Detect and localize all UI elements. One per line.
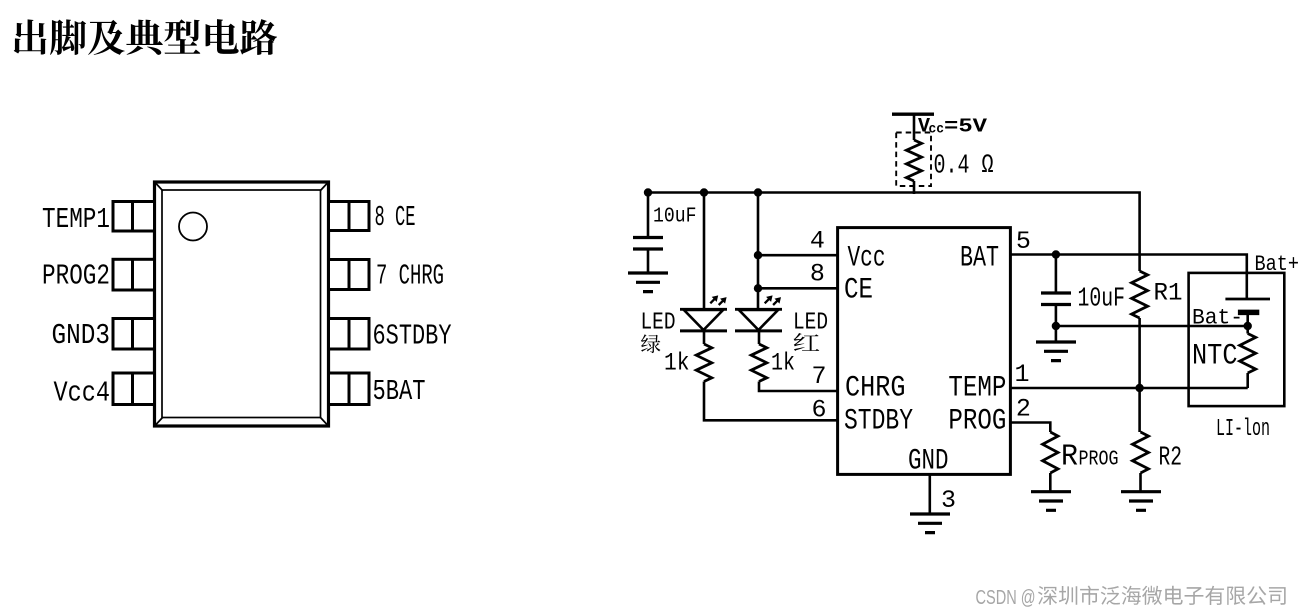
capacitor C2 10uF: [1041, 293, 1071, 305]
label Vcc=5V: [918, 116, 988, 139]
wire C2 to Bat- node: [1055, 305, 1058, 327]
wire LED green to R green: [703, 331, 706, 344]
resistor 1k (green): [696, 344, 712, 382]
svg-text:STDBY: STDBY: [844, 404, 913, 438]
svg-text:0.4 Ω: 0.4 Ω: [934, 152, 994, 182]
LED green emission arrows: [710, 295, 726, 305]
wire LED red to R red: [758, 331, 761, 344]
wire rail to LED green: [703, 193, 706, 310]
svg-text:GND: GND: [908, 445, 949, 479]
wire TEMP pin 1 to NTC: [1010, 387, 1247, 390]
wire R2 to ground: [1139, 473, 1142, 491]
op IC U1 block: [838, 228, 1011, 475]
label Rprog: [1061, 440, 1119, 475]
label 红: [794, 333, 820, 351]
resistor 1k (red): [751, 344, 767, 382]
wire BAT to C2: [1055, 255, 1058, 294]
package pin 6 (right): [329, 319, 370, 350]
package pin 3 (left): [113, 319, 155, 350]
ground under C1: [628, 273, 668, 292]
svg-text:Vcc: Vcc: [848, 242, 886, 276]
svg-text:CSDN @: CSDN @: [976, 586, 1036, 609]
wire Rprog to ground: [1049, 473, 1052, 491]
dashed box around 0.4 ohm resistor: [896, 133, 931, 187]
svg-text:R2: R2: [1159, 444, 1183, 474]
resistor R1: [1132, 271, 1148, 318]
svg-text:PROG: PROG: [948, 404, 1006, 438]
svg-text:Vcc4: Vcc4: [54, 377, 111, 410]
resistor Rprog: [1043, 432, 1058, 473]
svg-text:1k: 1k: [771, 349, 795, 378]
package pin 5 (right): [329, 373, 370, 405]
wire R green to STDBY pin 6: [704, 382, 838, 421]
thermistor NTC: [1240, 334, 1256, 374]
wire C1 to ground: [647, 249, 650, 272]
package pin 7 (right): [329, 260, 370, 290]
junction pin8: [754, 284, 762, 292]
svg-text:R: R: [1061, 440, 1078, 475]
package pin 8 (right): [329, 202, 370, 231]
wire pin 8 (CE): [758, 287, 838, 290]
battery pack box LI-lon: [1189, 273, 1285, 406]
svg-text:3: 3: [941, 486, 956, 515]
junction TEMP/R1/R2: [1135, 384, 1143, 392]
junction rail/C1: [644, 188, 652, 196]
svg-text:LI-lon: LI-lon: [1216, 416, 1270, 443]
wire rail to C1: [647, 193, 650, 237]
svg-text:Bat+: Bat+: [1255, 252, 1300, 277]
ground under C2: [1036, 342, 1076, 361]
Vcc supply bar: [892, 112, 934, 115]
svg-text:8 CE: 8 CE: [375, 201, 416, 234]
package pin 4 (left): [113, 373, 155, 405]
svg-text:10uF: 10uF: [653, 206, 697, 229]
wire rail to pin4/pin8/LED red: [757, 193, 760, 310]
IC package body: [155, 182, 329, 426]
wire to ground under C2: [1055, 326, 1058, 341]
ground under Rprog: [1031, 492, 1071, 511]
pin 1 indicator circle: [179, 213, 207, 241]
svg-text:cc: cc: [929, 123, 945, 138]
ground under R2: [1121, 492, 1161, 511]
svg-text:10uF: 10uF: [1078, 285, 1126, 315]
wire Bat- node to NTC: [1246, 326, 1249, 334]
wire pin 4 (Vcc): [758, 254, 838, 257]
wire Vcc bar to resistor: [913, 114, 916, 140]
wire BAT pin 5 to battery: [1010, 255, 1246, 300]
svg-text:5BAT: 5BAT: [373, 375, 426, 408]
svg-text:PROG2: PROG2: [42, 260, 110, 293]
LED green D1: [680, 309, 727, 331]
package pin 2 (left): [113, 259, 155, 290]
svg-text:2: 2: [1016, 395, 1031, 424]
junction Bat-/NTC: [1244, 322, 1252, 330]
svg-text:4: 4: [810, 227, 825, 256]
svg-text:8: 8: [810, 260, 825, 289]
junction C2/Bat-: [1052, 322, 1060, 330]
wire Bat- line: [1056, 325, 1248, 328]
svg-text:6STDBY: 6STDBY: [373, 319, 452, 352]
capacitor C1 10uF: [633, 238, 663, 250]
watermark company name: [1038, 586, 1286, 605]
wire R1 to TEMP line: [1138, 318, 1141, 388]
svg-text:R1: R1: [1154, 279, 1183, 308]
resistor 0.4 ohm: [906, 140, 921, 181]
svg-text:7 CHRG: 7 CHRG: [376, 260, 444, 293]
svg-text:TEMP1: TEMP1: [42, 203, 110, 236]
svg-text:LED: LED: [641, 310, 676, 337]
svg-text:6: 6: [811, 395, 826, 424]
wire R red to CHRG pin 7: [759, 382, 838, 392]
LED red emission arrows: [765, 295, 781, 305]
resistor R2: [1133, 432, 1149, 473]
wire GND pin 3: [928, 474, 931, 513]
junction BAT/C2: [1052, 250, 1060, 258]
svg-text:1: 1: [1014, 360, 1029, 389]
ground under pin 3: [910, 514, 950, 533]
battery BT1: [1225, 299, 1270, 326]
svg-text:TEMP: TEMP: [948, 372, 1006, 406]
svg-text:=5V: =5V: [944, 116, 988, 138]
wire NTC to TEMP line: [1246, 373, 1249, 388]
junction rail/LED red: [754, 188, 762, 196]
svg-text:CE: CE: [844, 274, 873, 308]
svg-text:7: 7: [811, 362, 826, 391]
LED red D2: [735, 309, 782, 331]
svg-text:NTC: NTC: [1192, 340, 1238, 374]
svg-text:LED: LED: [793, 310, 828, 337]
junction rail/LED green: [700, 188, 708, 196]
wire TEMP to R2: [1138, 388, 1141, 432]
svg-text:GND3: GND3: [52, 319, 111, 352]
package pin 1 (left): [113, 202, 155, 232]
svg-text:CHRG: CHRG: [845, 372, 906, 406]
wire main Vcc rail: [648, 193, 1140, 272]
svg-text:1k: 1k: [664, 349, 690, 378]
svg-text:5: 5: [1016, 227, 1031, 256]
label 绿: [641, 334, 660, 353]
wire resistor to rail: [913, 181, 916, 194]
title 出脚及典型电路: [14, 19, 277, 55]
wire PROG pin 2 to Rprog: [1010, 423, 1050, 433]
svg-text:BAT: BAT: [960, 242, 999, 276]
junction pin4: [754, 251, 762, 259]
svg-text:PROG: PROG: [1079, 448, 1119, 471]
